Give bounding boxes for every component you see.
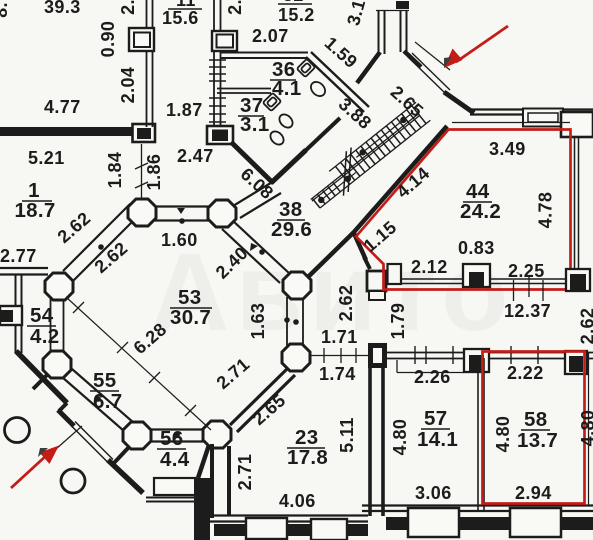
svg-text:0.90: 0.90 [98, 21, 118, 58]
wall: corridor left vertical [378, 10, 380, 54]
svg-text:3.1: 3.1 [240, 113, 269, 136]
svg-text:1.71: 1.71 [321, 327, 358, 347]
svg-text:1.60: 1.60 [161, 230, 198, 250]
svg-text:4.80: 4.80 [493, 416, 513, 453]
svg-text:4.2: 4.2 [30, 325, 59, 348]
wall: O2 to stair hall corner double [233, 181, 274, 206]
window box on right wall [212, 31, 237, 51]
svg-text:6.7: 6.7 [93, 390, 122, 413]
svg-text:2.04: 2.04 [118, 67, 138, 104]
pilaster boxes below room23 [246, 518, 287, 539]
wall: room 44 right thin double [574, 137, 576, 281]
column octagon O3 [283, 272, 311, 299]
wall: room23 bottom [209, 514, 368, 516]
svg-text:39.3: 39.3 [44, 0, 81, 17]
svg-text:55: 55 [93, 369, 116, 392]
wall: top right horizontal double [470, 108, 593, 110]
window hatch ticks on right wall upper [209, 60, 226, 81]
corner window box right edge [561, 112, 593, 137]
dimension ticks 12.37 [513, 280, 515, 301]
red arrow bottom left [11, 446, 59, 489]
svg-text:4.4: 4.4 [160, 448, 190, 471]
wall: corridor right vertical [400, 10, 402, 52]
wall: bathroom NE diagonal double wall [306, 57, 364, 112]
svg-text:4.77: 4.77 [44, 97, 81, 117]
glazing O1-O2 [153, 205, 211, 207]
svg-text:5.11: 5.11 [337, 417, 357, 453]
column octagon O6 [43, 351, 71, 378]
svg-text:5.21: 5.21 [28, 148, 65, 168]
svg-text:4.80: 4.80 [578, 410, 593, 447]
svg-text:4.80: 4.80 [390, 419, 410, 456]
pilaster box right bottom room44 [566, 269, 590, 291]
glazing O2-O3 [222, 229, 280, 283]
wall: outer diagonal short [58, 410, 74, 426]
window box on left loggia wall [0, 306, 22, 325]
svg-text:2.77: 2.77 [0, 246, 37, 266]
wall: jog step [59, 403, 67, 411]
circle tree b [61, 469, 85, 493]
pilaster box bottom of corner wall [367, 271, 386, 291]
column octagon O2 [208, 200, 236, 227]
svg-text:1.79: 1.79 [388, 303, 408, 340]
sink a in room 37 [277, 112, 295, 130]
label 32 underline [278, 3, 312, 5]
column octagon O5 [45, 273, 73, 300]
svg-text:56: 56 [160, 427, 183, 450]
toilet in room 36 [297, 59, 315, 77]
column octagon O8 [203, 421, 231, 448]
sink in room 36 [308, 79, 328, 99]
svg-text:2.25: 2.25 [508, 261, 545, 281]
toilet in room 37 [263, 93, 281, 111]
wall: thick diagonal O4 to O8 double [230, 368, 288, 425]
loggia partition at O6 [33, 375, 47, 389]
svg-text:54: 54 [30, 304, 54, 327]
stair stringers [304, 102, 430, 209]
svg-text:2.: 2. [118, 0, 138, 15]
glazing O3-O4 [286, 297, 288, 346]
glazing O7-O8 [150, 428, 205, 430]
inner face line room 57 top [397, 372, 464, 374]
circle tree a [5, 418, 30, 443]
wall: vertical double wall right of lift hall [213, 0, 215, 127]
glazing O5-O6 [50, 298, 52, 353]
svg-text:15.2: 15.2 [278, 5, 315, 25]
svg-text:1.86: 1.86 [144, 154, 164, 191]
svg-text:2.12: 2.12 [411, 257, 448, 277]
door box in loggia56 bottom [154, 478, 196, 495]
wall: loggia bottom double line [146, 497, 197, 499]
svg-text:2.07: 2.07 [252, 26, 289, 46]
wall: partition between 36 and 37 [217, 88, 271, 90]
red arrow top right [444, 26, 508, 68]
glazing O6-O7 [62, 377, 124, 431]
window box bottom of bathroom wall [207, 126, 233, 144]
svg-text:13.7: 13.7 [517, 429, 558, 452]
window ticks 2.22 [511, 346, 538, 364]
wall: room23 left vertical double [210, 444, 214, 518]
wall: outer diagonal lower [108, 460, 143, 493]
wall: thick diagonal to top-right wing [444, 92, 474, 113]
pilaster box at end of thick wall [133, 124, 156, 142]
sink b in room 37 [268, 129, 286, 147]
svg-text:1.84: 1.84 [105, 152, 125, 189]
red outline room 44 [356, 130, 571, 290]
black tab top of corridor [396, 1, 409, 9]
svg-text:2.62: 2.62 [578, 308, 593, 345]
black pilaster square [368, 343, 387, 368]
svg-text:18.7: 18.7 [14, 199, 55, 222]
wall: vertical double wall left of lift hall [146, 0, 148, 127]
svg-text:58: 58 [524, 408, 547, 431]
thin rail line at arrow tip [56, 426, 82, 449]
svg-text:0.83: 0.83 [458, 238, 495, 258]
wall: black band below loggia [194, 478, 210, 540]
tick line across corridor top [376, 10, 409, 12]
window jamb box left end of bottom wall [388, 264, 402, 284]
svg-text:2.62: 2.62 [336, 285, 356, 322]
column octagon O4 [282, 344, 310, 371]
wall: stair hall right diagonal (red highlighted) [354, 126, 447, 232]
wall: corridor right flare [404, 51, 421, 67]
svg-text:2.71: 2.71 [235, 454, 255, 491]
wall: between 57 and 58 thin double [477, 358, 479, 512]
dimension line 6.28 with ticks [66, 297, 211, 430]
column octagon O1 [128, 199, 156, 226]
svg-text:4.78: 4.78 [536, 192, 556, 229]
svg-text:2.: 2. [225, 0, 245, 15]
wall: bathroom top wall [221, 52, 308, 54]
svg-text:1.63: 1.63 [248, 303, 268, 340]
pilaster boxes below 57/58 [408, 508, 459, 537]
stair treads lower flight [313, 182, 341, 208]
stair direction lines with dots [320, 173, 356, 202]
glazing O5-O1 [63, 204, 130, 271]
svg-text:2.26: 2.26 [414, 367, 451, 387]
red outline room 58 [483, 352, 585, 504]
svg-text:8.: 8. [0, 2, 11, 18]
svg-text:57: 57 [424, 407, 447, 430]
wall: bottom wall rooms 57/58 [362, 504, 593, 506]
wall: outer diagonal upper [16, 351, 67, 403]
wall: room1 bottom horizontal double [0, 267, 48, 269]
column octagon O7 [123, 422, 151, 449]
svg-text:1.74: 1.74 [319, 364, 356, 384]
wall: corner to pilaster [353, 231, 366, 260]
window in top right wall [523, 109, 563, 127]
wall: bottom of room44 zone thin double [400, 278, 573, 280]
pilaster box right end top wall [565, 351, 587, 374]
svg-text:14.1: 14.1 [417, 428, 458, 451]
wall: top wall rooms 57/58 [386, 352, 593, 354]
pilaster box mid bottom room44 [463, 264, 490, 287]
dimension line 1.71/1.74 [311, 355, 368, 357]
svg-text:2.47: 2.47 [177, 146, 214, 166]
stair treads upper flight [335, 106, 426, 185]
room 44 top inner face line [452, 122, 570, 124]
window hatch ticks on right wall lower [209, 98, 226, 122]
staircase flights [301, 98, 433, 213]
wall: diagonal from window box down-right [231, 142, 273, 183]
svg-text:15.6: 15.6 [162, 8, 199, 28]
wall: right edge room58 thin [588, 352, 590, 505]
svg-text:12.37: 12.37 [504, 301, 551, 321]
label 11 underline [168, 8, 202, 10]
svg-text:3.49: 3.49 [489, 139, 526, 159]
stair break lines [323, 151, 367, 196]
svg-text:3.06: 3.06 [415, 483, 452, 503]
svg-text:4.06: 4.06 [279, 491, 316, 511]
wall: left vertical of loggia 54 [15, 274, 17, 353]
thin rail line to arrow tip [415, 42, 450, 70]
svg-text:24.2: 24.2 [460, 200, 501, 223]
wall: thick horizontal wall room1 top [0, 127, 133, 136]
wall: corner toward octagon hall [308, 232, 354, 277]
window double line in outer wall [71, 426, 109, 464]
loggia partition at O7 [113, 447, 129, 464]
window double line along diagonal passage [408, 57, 446, 94]
pilaster box between 57 and 58 top [464, 349, 489, 372]
svg-text:4.1: 4.1 [272, 77, 301, 100]
svg-text:17.8: 17.8 [287, 446, 328, 469]
wall from O8 down-left [198, 445, 209, 478]
svg-text:2.94: 2.94 [515, 483, 552, 503]
svg-text:1.87: 1.87 [166, 100, 203, 120]
wall: between 23 and 57 double thick [368, 368, 372, 516]
wall: corridor left flare [357, 52, 380, 83]
svg-text:30.7: 30.7 [170, 306, 211, 329]
wall: diagonal notch up-right [271, 150, 306, 183]
window box on left wall (0.90) [129, 28, 154, 51]
dimension line 1.84/1.86 between box and O1 [141, 144, 143, 199]
svg-text:2.22: 2.22 [507, 363, 544, 383]
svg-text:29.6: 29.6 [271, 218, 312, 241]
wall: continues toward stair hall [304, 118, 340, 152]
window ticks 2.26 [415, 346, 453, 364]
